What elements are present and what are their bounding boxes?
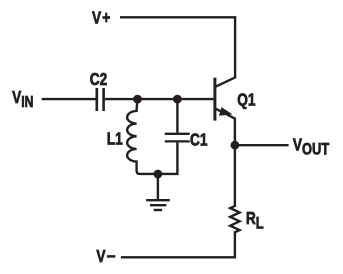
svg-text:C1: C1 xyxy=(190,131,208,150)
svg-text:C2: C2 xyxy=(90,70,108,89)
svg-text:V: V xyxy=(96,248,105,267)
svg-text:Q1: Q1 xyxy=(237,91,255,110)
svg-text:L1: L1 xyxy=(107,130,123,149)
